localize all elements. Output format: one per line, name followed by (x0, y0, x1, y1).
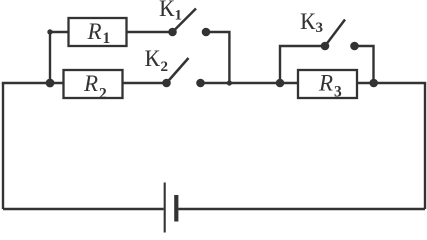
svg-text:К: К (159, 0, 175, 21)
wire: vertical up to R1 branch (50, 32, 69, 83)
node: corner cap at R1 feed (47, 29, 52, 34)
svg-text:К: К (145, 46, 161, 71)
switch K2 (162, 58, 205, 87)
svg-text:2: 2 (161, 59, 169, 75)
wire: K1 right contact down to main branch (206, 32, 229, 83)
wire: outer loop right side (424, 83, 426, 209)
resistor R3 (298, 70, 357, 98)
svg-text:3: 3 (316, 20, 324, 36)
wire: K3 right contact down to main branch (355, 46, 374, 83)
node: junction at R1/R2 split (46, 79, 55, 88)
battery: short thick negative plate (174, 195, 178, 222)
wire: bottom left to battery (3, 208, 164, 210)
wire: bottom battery to right (178, 208, 425, 210)
svg-text:1: 1 (175, 8, 183, 24)
svg-text:R: R (83, 71, 98, 96)
wire: K3 branch left riser (280, 46, 325, 83)
svg-text:R: R (87, 19, 102, 44)
wire: R3 to right corner (357, 82, 426, 84)
resistor R2 (64, 70, 123, 98)
wire: outer loop left side (2, 83, 4, 209)
node: junction K1 branch rejoin (227, 80, 232, 85)
svg-text:3: 3 (334, 84, 342, 101)
svg-text:1: 1 (103, 30, 111, 47)
resistor R1 (69, 18, 127, 46)
node: junction left of R3 (276, 79, 285, 88)
svg-text:К: К (300, 9, 316, 34)
wire: main branch left segment (2, 82, 64, 84)
switch K3 (321, 20, 359, 51)
wire: R1 to K1 left contact (127, 31, 173, 33)
node: junction right of R3 (369, 79, 378, 88)
wire: R2 to K2 left contact (123, 82, 167, 84)
svg-text:R: R (318, 71, 333, 96)
switch K1 (168, 9, 210, 37)
battery: long positive plate (164, 183, 166, 233)
wire: K2 right contact to R3 junction (201, 82, 299, 84)
svg-text:2: 2 (99, 85, 107, 102)
